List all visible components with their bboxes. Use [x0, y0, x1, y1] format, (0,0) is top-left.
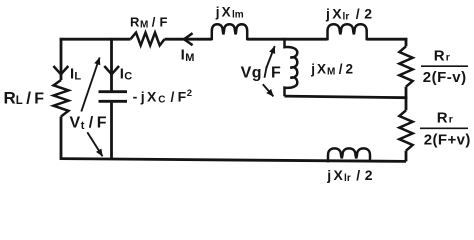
wire top bus right segment — [367, 38, 408, 41]
capacitor branch upper wire — [110, 38, 113, 91]
resistor Rr/2(F-v) — [399, 46, 412, 86]
arrowhead current IC — [104, 66, 119, 74]
label j XM / 2 — [310, 61, 353, 77]
svg-text:X: X — [334, 167, 344, 183]
wire top bus between RM and coil — [165, 38, 212, 41]
svg-text:R: R — [434, 48, 445, 65]
svg-text:F: F — [97, 115, 107, 132]
svg-text:r: r — [347, 173, 351, 184]
wire left rail bottom — [60, 117, 63, 160]
svg-text:r: r — [345, 12, 349, 23]
svg-text:/: / — [26, 88, 31, 107]
label IM — [181, 47, 195, 64]
svg-text:L: L — [16, 95, 23, 107]
annotation arrow Vt lower — [87, 132, 102, 156]
resistor Rr/2(F+v) — [399, 110, 412, 150]
svg-text:j: j — [325, 6, 330, 22]
svg-text:/: / — [356, 167, 360, 183]
wire right rail middle — [405, 87, 408, 111]
label RM / F — [130, 14, 168, 30]
svg-text:V: V — [241, 65, 252, 82]
svg-text:/: / — [89, 115, 94, 132]
svg-text:2: 2 — [187, 88, 192, 99]
wire left rail top — [60, 38, 63, 80]
inductor jXlm — [212, 24, 247, 40]
svg-text:M: M — [185, 52, 194, 64]
label j Xlr / 2 (bottom) — [326, 167, 373, 184]
svg-text:I: I — [181, 47, 185, 64]
inductor jXlr/2 (bottom) — [328, 148, 370, 162]
svg-text:-: - — [133, 89, 138, 105]
wire right rail bottom — [405, 151, 408, 162]
svg-text:C: C — [124, 71, 132, 83]
svg-text:j: j — [326, 167, 331, 183]
svg-text:2(F-v): 2(F-v) — [423, 69, 467, 86]
label Rr (upper fraction numerator) — [434, 48, 450, 65]
label Vg / F — [241, 65, 281, 82]
svg-text:M: M — [327, 66, 335, 77]
svg-text:/: / — [152, 14, 156, 29]
svg-text:/: / — [171, 89, 175, 105]
capacitor C plates — [99, 92, 128, 102]
svg-text:X: X — [317, 61, 326, 76]
label Rr (lower fraction numerator) — [437, 109, 453, 126]
fraction bar upper — [421, 65, 468, 67]
label j Xlm — [215, 4, 244, 20]
svg-text:r: r — [449, 113, 453, 125]
label IL — [70, 65, 81, 82]
svg-text:/: / — [356, 6, 360, 22]
svg-text:L: L — [74, 71, 81, 83]
resistor RL — [54, 80, 69, 117]
svg-text:V: V — [70, 115, 81, 132]
svg-text:m: m — [235, 9, 244, 20]
svg-text:X: X — [332, 6, 342, 22]
svg-text:F: F — [178, 89, 187, 105]
label Vt / F — [70, 115, 107, 132]
label - j XC / F^2 — [133, 88, 192, 106]
wire bottom bus — [60, 159, 406, 162]
svg-text:/: / — [339, 61, 343, 76]
arrowhead current IM (pointing left) — [184, 33, 193, 45]
label RL / F — [4, 88, 45, 107]
annotation arrow Vg lower — [263, 84, 274, 96]
wire middle bus — [285, 96, 408, 98]
svg-text:F: F — [160, 14, 168, 29]
inductor jXM/2 branch (magnetizing, vertical) — [285, 38, 298, 96]
annotation arrow Vt upper — [81, 58, 99, 112]
svg-text:j: j — [140, 89, 145, 105]
svg-text:R: R — [4, 88, 16, 107]
svg-text:j: j — [215, 4, 220, 19]
svg-text:t: t — [81, 120, 85, 132]
wire right rail top — [405, 38, 408, 46]
fraction bar lower — [420, 127, 468, 129]
svg-text:X: X — [147, 89, 157, 105]
svg-text:F: F — [34, 90, 44, 107]
svg-text:2(F+v): 2(F+v) — [424, 132, 471, 149]
arrowhead current IL — [53, 66, 68, 74]
annotation arrow Vg upper — [266, 46, 275, 68]
svg-text:R: R — [130, 14, 140, 29]
svg-text:g: g — [252, 65, 262, 82]
svg-text:2: 2 — [364, 6, 372, 22]
svg-text:R: R — [437, 109, 448, 126]
capacitor branch lower wire — [110, 103, 113, 160]
svg-text:2: 2 — [346, 61, 354, 76]
resistor RM — [131, 33, 165, 46]
label IC — [120, 65, 132, 82]
svg-text:j: j — [310, 61, 315, 76]
wire top bus between coil and node — [247, 38, 327, 41]
svg-text:M: M — [140, 19, 148, 30]
svg-text:C: C — [158, 95, 165, 106]
label j Xlr / 2 (top) — [325, 6, 372, 23]
svg-text:r: r — [446, 52, 450, 64]
inductor jXlr/2 (top) — [328, 24, 367, 40]
svg-text:2: 2 — [365, 167, 373, 183]
svg-text:F: F — [271, 65, 281, 82]
svg-text:X: X — [222, 4, 231, 19]
wire top bus left segment — [60, 38, 131, 41]
